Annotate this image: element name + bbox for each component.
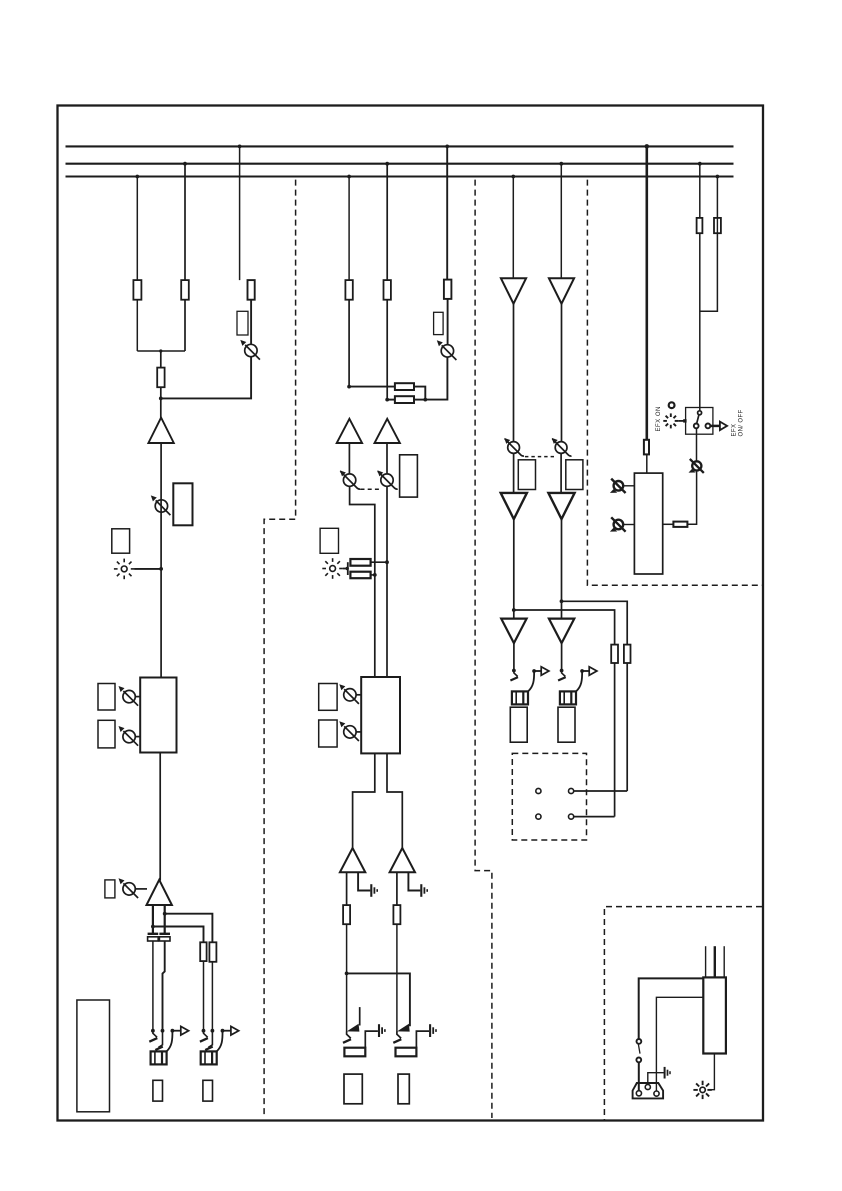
branch wire H to resistor xyxy=(560,599,628,644)
potentiometer (EFX send level) xyxy=(240,340,260,360)
ganged pot dashed link xyxy=(525,456,555,458)
EFX ON LED xyxy=(663,402,678,428)
ganged pot dashed link xyxy=(361,488,383,490)
power dashed enclosure xyxy=(604,907,762,1120)
separator channel 1 / channel 2 (dashed) xyxy=(264,180,296,1118)
jack J5 (aux out) xyxy=(510,667,549,705)
resistor R mid xyxy=(157,368,164,388)
resistor RE xyxy=(384,280,391,300)
power lamp xyxy=(693,1081,711,1099)
potentiometer (return level L) xyxy=(504,438,524,456)
wire switch to pin xyxy=(638,1062,640,1091)
label box xyxy=(510,707,527,742)
wire xyxy=(250,300,252,345)
svg-text:EFX ON: EFX ON xyxy=(656,406,662,431)
wire A from bus 3 xyxy=(135,175,139,281)
wire xyxy=(699,233,701,411)
node xyxy=(423,398,427,402)
resistor RD xyxy=(345,280,352,300)
terminal xyxy=(569,814,574,819)
wire xyxy=(513,304,515,442)
insert point connector xyxy=(343,559,389,578)
wire xyxy=(561,304,563,442)
wire xyxy=(136,300,138,351)
value label box xyxy=(319,684,337,711)
wire out R xyxy=(396,872,398,905)
wire to monitor box xyxy=(614,663,616,817)
resistor RH2 (horizontal) xyxy=(395,396,414,403)
resistor R aux2 xyxy=(624,645,631,663)
resistor xyxy=(697,218,703,233)
value label box xyxy=(105,880,115,898)
terminal xyxy=(536,788,541,793)
wire pot to node xyxy=(425,357,447,400)
value label box xyxy=(319,720,337,747)
ground L xyxy=(371,884,377,897)
jack J1 (mono out) xyxy=(149,1026,188,1064)
amp (down) G2 xyxy=(501,493,527,519)
wire out L xyxy=(346,872,348,905)
resistor R aux1 xyxy=(611,645,618,663)
capacitor C2 xyxy=(159,934,170,941)
wire D from bus 3 xyxy=(347,175,351,281)
resistor RA xyxy=(133,280,141,300)
resistor EFX in xyxy=(644,440,649,455)
label box xyxy=(320,528,338,553)
op-amp U2 (output amp) xyxy=(147,880,172,905)
wire right output xyxy=(164,905,166,933)
wire xyxy=(414,399,425,401)
wire B from bus 2 xyxy=(183,162,187,280)
secondary lead 2 xyxy=(714,946,716,977)
potentiometer EFX 2 xyxy=(610,517,635,531)
power switch xyxy=(636,1039,641,1062)
EQ block (stereo) xyxy=(361,677,400,753)
jack J3 (stereo L) xyxy=(343,1007,385,1056)
op-amp U1 (input amp) xyxy=(148,418,173,443)
wire terminal to resistor line xyxy=(574,790,628,792)
wire xyxy=(513,643,515,669)
resistor RC xyxy=(248,280,255,300)
label box xyxy=(112,529,130,553)
potentiometer (gain) xyxy=(151,495,171,515)
value label box xyxy=(173,483,192,525)
svg-text:ON/ OFF: ON/ OFF xyxy=(739,409,745,436)
wire E from bus 2 xyxy=(385,162,389,280)
ground (mains earth) xyxy=(665,1067,670,1079)
transformer block xyxy=(703,977,726,1053)
wire xyxy=(152,941,154,1031)
wire xyxy=(513,519,515,619)
resistor RB xyxy=(181,280,189,300)
label box xyxy=(558,707,575,742)
wire xyxy=(447,299,449,345)
value label box xyxy=(98,720,115,748)
legend box xyxy=(77,1000,110,1112)
wire with jog xyxy=(700,233,718,311)
branch wire G to resistor xyxy=(512,608,615,645)
amp (down) H2 xyxy=(548,493,574,519)
value label box xyxy=(237,311,248,335)
value label box xyxy=(518,460,535,490)
wire live to switch xyxy=(639,978,704,1039)
LED (peak) xyxy=(114,559,135,580)
wire xyxy=(348,300,350,387)
wire xyxy=(646,454,648,473)
potentiometer (EQ LF) xyxy=(339,721,361,741)
op-amp U4 xyxy=(375,419,400,443)
value label box xyxy=(98,684,115,711)
wire xyxy=(346,924,348,1031)
earth wire xyxy=(648,1073,664,1085)
wire xyxy=(203,961,205,1031)
wire from pot to summing node xyxy=(161,357,251,399)
wire L with jog xyxy=(350,486,375,677)
wire xyxy=(348,443,350,474)
wire left output xyxy=(152,905,154,933)
wire xyxy=(211,962,213,1031)
resistor R out R xyxy=(393,905,400,924)
EFX ON/OFF switch xyxy=(686,408,713,435)
op-amp U6 xyxy=(390,848,415,872)
wire xyxy=(560,453,562,493)
EFX dashed enclosure xyxy=(587,180,762,586)
output amp (down) G3 xyxy=(501,619,526,644)
wire to power lamp xyxy=(708,1054,715,1090)
wire xyxy=(561,643,563,669)
ground R xyxy=(421,884,427,897)
capacitor C1 xyxy=(148,934,159,941)
potentiometer (EQ HF) xyxy=(119,686,141,706)
EQ block xyxy=(140,678,176,753)
op-amp U5 xyxy=(340,848,365,872)
wire xyxy=(386,300,388,400)
jack J2 (mono out) xyxy=(200,1026,239,1064)
potentiometer (return level R) xyxy=(552,438,572,456)
wire LED to switch xyxy=(678,419,686,422)
secondary lead 3 xyxy=(723,946,725,977)
bus 3 xyxy=(66,175,734,177)
wire terminal to resistor line xyxy=(574,816,615,818)
buffer amp (down) G xyxy=(501,278,526,304)
wire xyxy=(184,300,186,351)
wire branch lower xyxy=(151,925,204,943)
wire xyxy=(160,443,162,678)
wire from bus 2 xyxy=(698,162,702,218)
label box xyxy=(153,1080,163,1101)
wire to return pot xyxy=(687,470,696,524)
wire neutral xyxy=(656,997,703,1091)
border frame xyxy=(58,106,764,1121)
value label box xyxy=(434,312,444,334)
label box xyxy=(344,1074,362,1104)
wire xyxy=(396,924,398,1031)
jack J4 (stereo R) xyxy=(393,1024,436,1056)
value label box xyxy=(400,455,418,497)
potentiometer (fader) xyxy=(119,878,148,898)
bus 2 xyxy=(66,163,734,165)
wire H from bus 2 xyxy=(559,162,563,278)
potentiometer (gain R) xyxy=(377,470,397,489)
wire L splay xyxy=(353,753,375,848)
wire C from bus 1 xyxy=(238,145,242,281)
resistor EFX out (horizontal) xyxy=(673,522,687,527)
wire with jog xyxy=(163,941,165,1031)
switch output arrow xyxy=(711,422,728,431)
op-amp U3 xyxy=(337,419,362,443)
IEC mains inlet xyxy=(633,1083,664,1098)
ground branch R xyxy=(408,872,420,890)
resistor R out2 xyxy=(209,942,216,962)
wire branch upper xyxy=(163,912,213,943)
potentiometer EFX 1 xyxy=(610,479,635,493)
resistor xyxy=(714,218,721,233)
bus 1 (EFX bus) xyxy=(66,145,734,147)
node wire D row xyxy=(347,385,395,389)
wire xyxy=(513,453,515,493)
value label box xyxy=(566,460,583,490)
wire G from bus 3 xyxy=(511,175,515,279)
wire pot to switch xyxy=(696,428,698,461)
resistor R out L xyxy=(343,905,350,924)
wire xyxy=(160,351,162,368)
wire xyxy=(386,443,388,474)
terminal xyxy=(569,788,574,793)
svg-text:EFX: EFX xyxy=(732,424,738,437)
resistor R out1 xyxy=(200,942,206,961)
potentiometer (EQ LF) xyxy=(119,726,141,746)
wire R xyxy=(386,486,388,677)
EFX bus wire (thick) xyxy=(645,144,650,440)
wire joining A and B xyxy=(137,349,185,352)
potentiometer (gain L) xyxy=(340,470,360,489)
wire xyxy=(561,519,563,619)
wire from LED to channel xyxy=(135,567,164,571)
wire to summing node xyxy=(159,387,163,418)
EFX processor block xyxy=(634,473,662,574)
separator channel 2 / aux (dashed) xyxy=(475,180,492,1118)
wire F from bus 1 xyxy=(445,145,449,280)
ground branch L xyxy=(358,872,370,890)
secondary lead 1 xyxy=(705,946,707,977)
label box xyxy=(398,1074,409,1104)
terminal xyxy=(536,814,541,819)
wire xyxy=(159,753,161,881)
potentiometer (EFX send) xyxy=(437,340,457,360)
resistor RF xyxy=(444,280,452,299)
potentiometer EFX return xyxy=(689,459,704,473)
resistor RH1 (horizontal) xyxy=(395,383,414,390)
jack J6 (aux out) xyxy=(558,667,597,705)
node wire E row xyxy=(385,398,395,402)
wire block out xyxy=(663,523,674,525)
output amp (down) H3 xyxy=(549,619,574,644)
wire xyxy=(414,387,425,400)
wire to monitor box xyxy=(626,663,628,791)
wire from bus 3 xyxy=(716,175,720,218)
buffer amp (down) H xyxy=(549,278,574,304)
label box xyxy=(203,1080,213,1101)
potentiometer (EQ HF) xyxy=(339,684,361,704)
wire R splay xyxy=(387,753,402,848)
crossfeed wire xyxy=(345,972,410,1027)
LED (peak) xyxy=(322,558,343,579)
footswitch dashed box xyxy=(512,753,586,840)
